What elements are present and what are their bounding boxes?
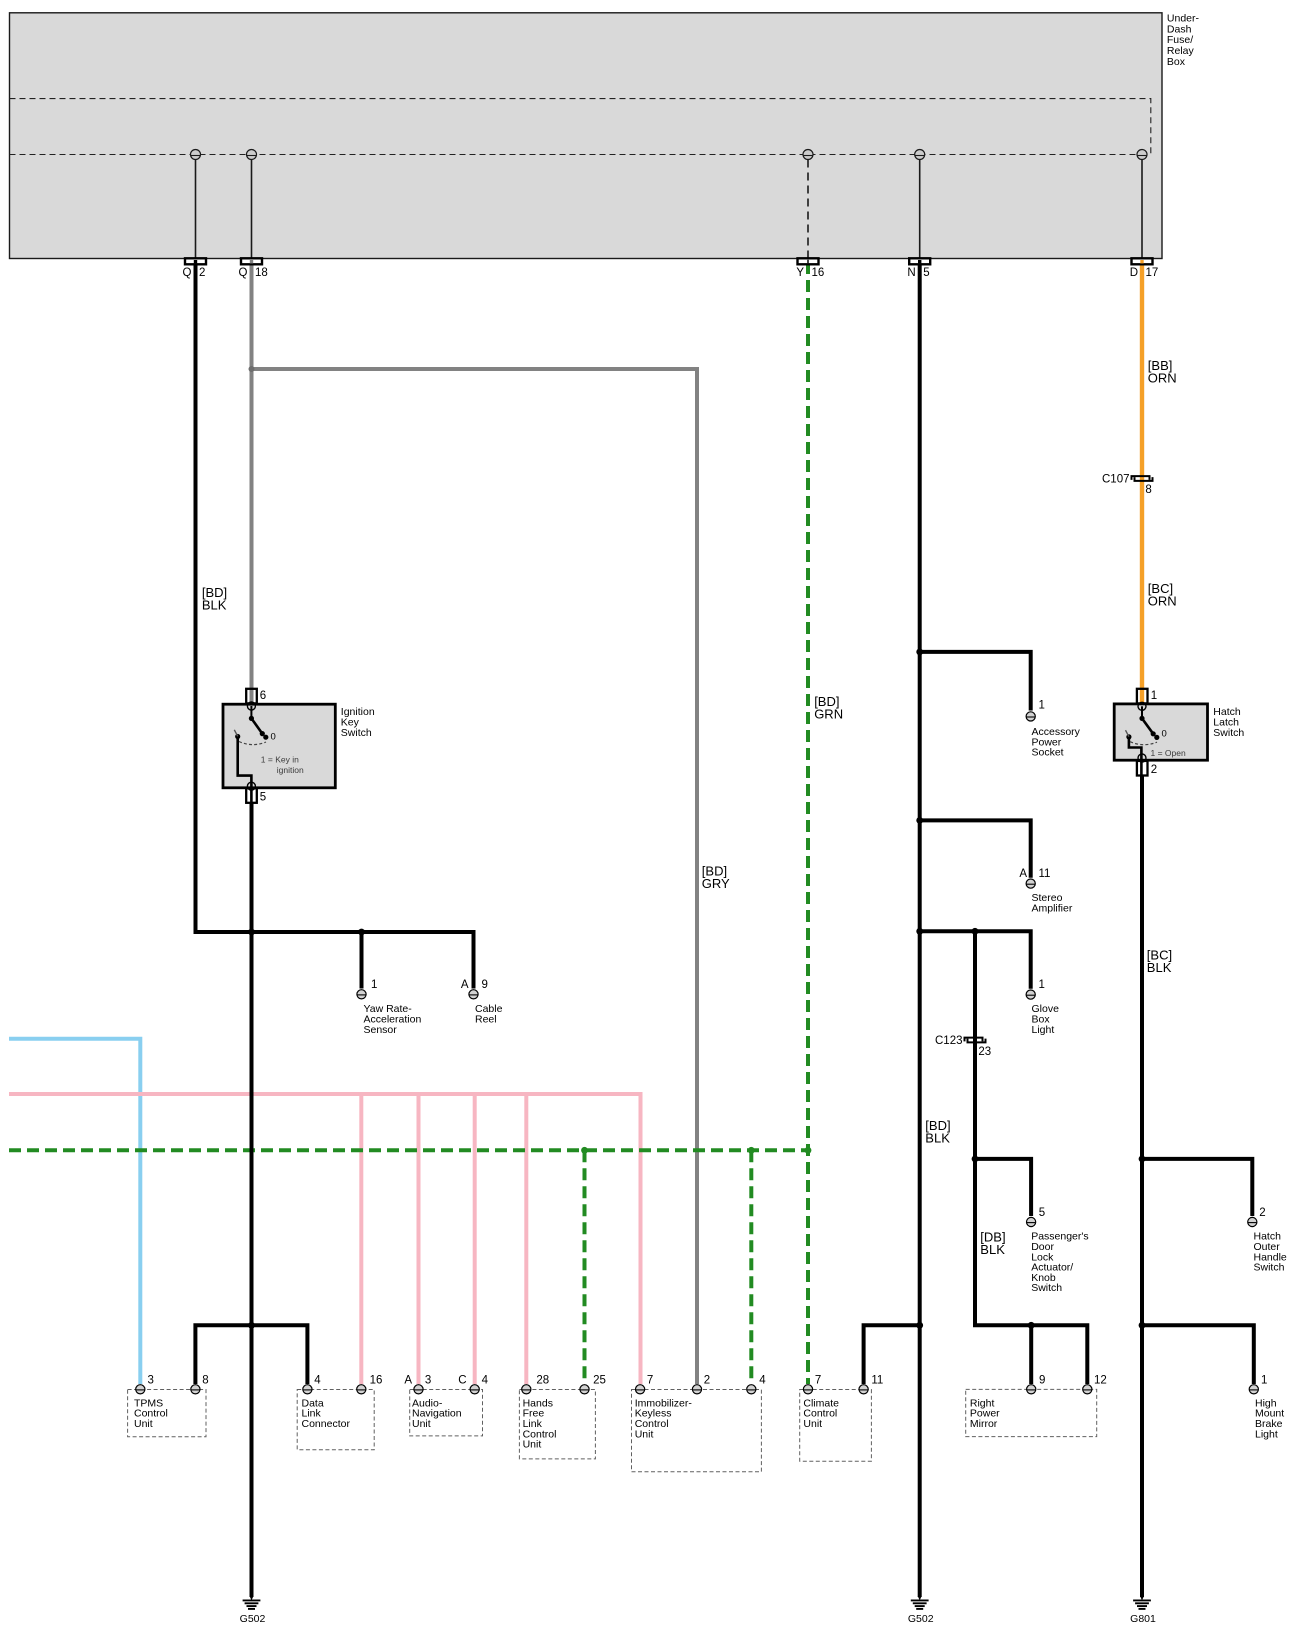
ignition switch movable arm	[251, 718, 262, 733]
svg-text:CableReel: CableReel	[475, 1003, 503, 1025]
wire PNK branch to DLC pin16	[359, 1094, 363, 1384]
wire stub in terminal Q18	[250, 260, 253, 263]
pin circle climate 7	[803, 1385, 812, 1394]
pin circle immobilizer 7	[636, 1385, 645, 1394]
pin circle audio-nav A3	[414, 1385, 423, 1394]
svg-text:18: 18	[255, 267, 268, 279]
component box climate control unit	[800, 1390, 872, 1462]
pin circle climate 11	[859, 1385, 868, 1394]
component box audio-navigation unit	[410, 1390, 483, 1436]
svg-text:16: 16	[812, 267, 825, 279]
wire branch to passenger door lock pin5	[975, 1159, 1031, 1216]
svg-text:N: N	[907, 267, 915, 279]
pin circle hands free 28	[522, 1385, 531, 1394]
junction at stereo branch	[916, 817, 923, 824]
svg-text:Under-DashFuse/RelayBox: Under-DashFuse/RelayBox	[1167, 13, 1200, 68]
svg-text:G801: G801	[1130, 1613, 1156, 1625]
svg-text:2: 2	[1151, 764, 1157, 776]
wire BLK branch to yaw rate sensor pin1	[360, 932, 364, 989]
pin circle audio-nav C4	[470, 1385, 479, 1394]
wire GRN branch to HandsFree pin25	[583, 1150, 587, 1384]
svg-text:6: 6	[260, 690, 266, 702]
svg-text:StereoAmplifier: StereoAmplifier	[1032, 892, 1073, 914]
component box TPMS control unit	[128, 1390, 206, 1437]
pin circle immobilizer 2	[692, 1385, 701, 1394]
hatch switch pivot dot	[1139, 716, 1144, 721]
wire stub in terminal D17	[1140, 260, 1143, 263]
svg-text:4: 4	[759, 1375, 766, 1387]
svg-text:8: 8	[1145, 484, 1151, 496]
ignition switch pivot dot	[249, 716, 254, 721]
internal bus dashed line lower	[10, 154, 1148, 156]
wire branch to stereo amplifier pin A11	[920, 820, 1031, 877]
junction GRN at Y16 vertical	[805, 1147, 812, 1154]
svg-text:1: 1	[1039, 979, 1045, 991]
pin circle glove box light 1	[1026, 990, 1035, 999]
svg-text:12: 12	[1094, 1375, 1107, 1387]
wire BLK [BD]: Q2 to yaw rate sensor and cable reel	[196, 262, 474, 989]
junction at yaw branch	[358, 929, 365, 936]
svg-text:28: 28	[536, 1375, 549, 1387]
node D17 bus terminal circle	[1137, 150, 1147, 160]
svg-text:Q: Q	[239, 267, 248, 279]
ignition switch travel arc dashed	[239, 742, 266, 745]
wire lead Q2 inside box	[195, 160, 197, 259]
wire PNK branch to Audio-Nav pin C4	[473, 1094, 477, 1384]
junction at climate pin11 branch	[916, 1322, 923, 1329]
hatch pin2 terminal	[1137, 761, 1148, 776]
svg-text:0: 0	[1162, 729, 1167, 740]
connector terminal Y16	[798, 258, 819, 264]
wire lead N5 inside box	[919, 160, 921, 259]
hatch switch contact 1 tick	[1126, 730, 1129, 737]
svg-text:2: 2	[1259, 1207, 1265, 1219]
Under-Dash Fuse/Relay Box body	[10, 13, 1163, 259]
svg-text:8: 8	[202, 1375, 208, 1387]
ignition switch pin6 entry circle	[247, 702, 255, 710]
ground G502 (left)	[243, 1596, 261, 1609]
wire PNK branch to Audio-Nav pin A3	[417, 1094, 421, 1384]
svg-text:7: 7	[815, 1375, 821, 1387]
svg-text:Y: Y	[796, 267, 804, 279]
pin circle DLC 16	[357, 1385, 366, 1394]
junction at hatch outer handle branch	[1139, 1156, 1146, 1163]
wire branch to accessory power socket pin1	[920, 652, 1031, 711]
svg-text:5: 5	[260, 792, 266, 804]
ignition switch contact 0 dot	[263, 735, 268, 740]
wire branch to climate control pin11	[864, 1325, 920, 1384]
pin circle yaw rate sensor 1	[357, 990, 366, 999]
inline connector C107	[1132, 476, 1153, 481]
svg-text:[BC]BLK: [BC]BLK	[1147, 948, 1172, 976]
junction GRN at HandsFree branch	[581, 1147, 588, 1154]
wire GRY branch [BD] GRY to immobilizer pin2	[252, 369, 698, 1384]
pin circle immobilizer 4	[747, 1385, 756, 1394]
svg-text:23: 23	[978, 1046, 991, 1058]
pin circle accessory power socket 1	[1026, 712, 1035, 721]
connector terminal Q2	[185, 258, 206, 264]
svg-text:9: 9	[482, 979, 488, 991]
hatch switch common stem	[1141, 706, 1143, 718]
node Q2 bus terminal circle	[191, 150, 201, 160]
svg-text:G502: G502	[240, 1613, 266, 1625]
wire PNK branch to HandsFree pin28	[524, 1094, 528, 1384]
hatch switch contact 0 dot	[1154, 735, 1159, 740]
svg-text:1: 1	[1261, 1375, 1267, 1387]
svg-text:HatchOuterHandleSwitch: HatchOuterHandleSwitch	[1254, 1231, 1287, 1274]
ignition switch pin5 exit circle	[247, 782, 255, 790]
svg-text:[BD]GRN: [BD]GRN	[814, 694, 843, 722]
wire BLK branch to TPMS pin8 and DLC pin4	[195, 1325, 307, 1384]
svg-text:D: D	[1130, 267, 1138, 279]
junction at TPMS/DLC ground branch	[248, 1322, 255, 1329]
ignition key switch body	[223, 704, 335, 788]
svg-text:Yaw Rate-AccelerationSensor: Yaw Rate-AccelerationSensor	[364, 1003, 422, 1036]
hatch switch pin2 exit circle	[1138, 754, 1146, 762]
svg-text:3: 3	[425, 1375, 431, 1387]
wire BLK: N5 to ground G502	[918, 262, 922, 1597]
svg-text:4: 4	[482, 1375, 489, 1387]
junction at passenger door branch	[972, 1156, 979, 1163]
junction GRN at immobilizer branch	[748, 1147, 755, 1154]
pin circle mirror 9	[1027, 1385, 1036, 1394]
junction GRY at Q18 branch	[249, 366, 255, 372]
svg-text:5: 5	[1039, 1207, 1045, 1219]
svg-text:Immobilizer-KeylessControlUnit: Immobilizer-KeylessControlUnit	[635, 1397, 693, 1440]
svg-text:7: 7	[647, 1375, 653, 1387]
svg-text:4: 4	[314, 1375, 321, 1387]
junction ignition ground wire at yaw horizontal	[248, 929, 255, 936]
junction at accessory branch	[916, 649, 923, 656]
junction at C123 wire tap	[972, 928, 979, 935]
svg-text:TPMSControlUnit: TPMSControlUnit	[134, 1397, 168, 1430]
wire BLU: TPMS pin3 feed	[9, 1039, 140, 1384]
svg-text:C107: C107	[1102, 474, 1130, 486]
svg-text:C123: C123	[935, 1035, 963, 1047]
svg-text:2: 2	[199, 267, 205, 279]
wire branch to high mount brake light pin1	[1142, 1325, 1254, 1384]
hatch latch switch body	[1114, 704, 1207, 760]
hatch switch pin1 entry circle	[1138, 702, 1146, 710]
internal bus dashed line upper	[10, 99, 1151, 155]
svg-text:1: 1	[371, 979, 377, 991]
ignition switch common stem	[250, 706, 252, 718]
svg-text:G502: G502	[908, 1613, 934, 1625]
svg-text:1 = Open: 1 = Open	[1151, 748, 1186, 758]
wire BLK [BC]: hatch latch switch pin2 to ground G801	[1140, 776, 1144, 1597]
pin circle high mount brake light 1	[1249, 1385, 1258, 1394]
svg-text:[BD]GRY: [BD]GRY	[702, 864, 730, 892]
svg-text:A: A	[404, 1375, 412, 1387]
wire GRN branch to immobilizer pin4	[749, 1150, 753, 1384]
pin circle passenger door lock 5	[1027, 1217, 1036, 1226]
connector terminal D17	[1132, 258, 1153, 264]
ignition switch contact 1 dot	[235, 734, 240, 739]
wire stub in terminal Q2	[194, 260, 197, 263]
node Y16 bus terminal circle	[803, 150, 813, 160]
svg-text:Q: Q	[183, 267, 192, 279]
node N5 bus terminal circle	[915, 150, 925, 160]
svg-text:[BD]BLK: [BD]BLK	[925, 1118, 950, 1146]
component box immobilizer-keyless control unit	[632, 1390, 762, 1472]
pin circle hands free 25	[580, 1385, 589, 1394]
hatch switch travel arc dashed	[1130, 742, 1157, 745]
svg-text:2: 2	[704, 1375, 710, 1387]
ground G801	[1133, 1596, 1151, 1609]
svg-text:9: 9	[1039, 1375, 1045, 1387]
hatch switch movable arm	[1142, 718, 1153, 733]
pin circle stereo amplifier A11	[1026, 879, 1035, 888]
wire GRN dashed: Y16 to climate control pin7	[806, 262, 810, 1384]
wire branch to glove box light pin1	[920, 931, 1031, 989]
svg-text:[DB]BLK: [DB]BLK	[980, 1229, 1005, 1257]
component box hands free link control unit	[519, 1390, 595, 1459]
svg-text:11: 11	[1039, 868, 1051, 880]
svg-text:1: 1	[1039, 700, 1045, 712]
ignition pin6 terminal	[246, 689, 257, 704]
ignition switch wire contact1 to pin5	[238, 737, 252, 805]
svg-text:17: 17	[1146, 267, 1159, 279]
junction at glove box branch	[916, 928, 923, 935]
hatch switch contact 1 dot	[1126, 734, 1131, 739]
svg-text:0: 0	[271, 732, 276, 743]
svg-text:C: C	[458, 1375, 466, 1387]
ground G502 (center)	[911, 1596, 929, 1609]
svg-text:[BD]BLK: [BD]BLK	[202, 585, 227, 613]
wire stub in terminal Y16	[807, 260, 809, 264]
pin circle hatch outer handle 2	[1248, 1217, 1257, 1226]
svg-text:3: 3	[148, 1375, 154, 1387]
connector terminal Q18	[241, 258, 262, 264]
component box right power mirror	[966, 1389, 1097, 1436]
pin circle mirror 12	[1083, 1385, 1092, 1394]
svg-text:DataLinkConnector: DataLinkConnector	[302, 1397, 351, 1430]
ignition pin5 terminal	[246, 788, 257, 803]
ignition switch contact 1 tick	[234, 730, 237, 737]
pin circle cable reel A9	[469, 990, 478, 999]
wire stub in terminal N5	[918, 260, 921, 263]
hatch switch wire contact1 to pin2	[1129, 737, 1142, 777]
svg-text:IgnitionKeySwitch: IgnitionKeySwitch	[341, 706, 375, 739]
svg-text:11: 11	[871, 1375, 883, 1387]
svg-text:25: 25	[593, 1375, 606, 1387]
svg-text:GloveBoxLight: GloveBoxLight	[1032, 1003, 1060, 1036]
connector terminal N5	[909, 258, 930, 264]
svg-text:[BB]ORN: [BB]ORN	[1148, 358, 1177, 386]
svg-text:RightPowerMirror: RightPowerMirror	[970, 1397, 1000, 1430]
wire [DB] BLK through C123 to passenger door lock and right power mirror	[975, 931, 1087, 1384]
node Q18 bus terminal circle	[247, 150, 257, 160]
svg-text:[BC]ORN: [BC]ORN	[1148, 581, 1177, 609]
inline connector C123	[965, 1038, 986, 1043]
svg-text:AccessoryPowerSocket: AccessoryPowerSocket	[1032, 726, 1081, 759]
pin circle TPMS 8	[191, 1385, 200, 1394]
svg-text:Audio-NavigationUnit: Audio-NavigationUnit	[412, 1397, 462, 1430]
svg-text:ClimateControlUnit: ClimateControlUnit	[803, 1397, 839, 1430]
wire BLK: ignition switch pin5 to ground G502	[250, 802, 254, 1597]
wire PNK: horizontal bus	[9, 1094, 641, 1384]
svg-text:HatchLatchSwitch: HatchLatchSwitch	[1213, 706, 1244, 739]
wire lead Y16 inside box (dashed)	[807, 160, 809, 259]
wire GRY: Q18 to ignition key switch pin6	[250, 262, 254, 705]
svg-text:A: A	[461, 979, 469, 991]
svg-text:5: 5	[923, 267, 929, 279]
pin circle TPMS 3	[136, 1385, 145, 1394]
svg-text:16: 16	[370, 1375, 383, 1387]
svg-text:HighMountBrakeLight: HighMountBrakeLight	[1255, 1397, 1284, 1440]
component box data link connector	[297, 1390, 374, 1450]
svg-text:HandsFreeLinkControlUnit: HandsFreeLinkControlUnit	[523, 1397, 557, 1450]
junction at mirror pin9 branch	[1028, 1322, 1035, 1329]
svg-text:A: A	[1019, 868, 1027, 880]
wire lead Q18 inside box	[251, 160, 253, 259]
ignition switch arm end dot	[260, 731, 265, 736]
wire GRN dashed horizontal bus	[9, 1148, 808, 1152]
hatch switch arm end dot	[1151, 731, 1156, 736]
wire lead D17 inside box	[1141, 160, 1143, 259]
svg-text:Passenger'sDoorLockActuator/Kn: Passenger'sDoorLockActuator/KnobSwitch	[1031, 1231, 1088, 1295]
hatch pin1 terminal	[1137, 689, 1148, 704]
junction at high mount brake light branch	[1139, 1322, 1146, 1329]
wire branch to right power mirror pin9	[1029, 1325, 1033, 1384]
wire ORN: D17 to hatch latch switch pin1	[1140, 262, 1144, 705]
svg-text:1: 1	[1151, 690, 1157, 702]
pin circle DLC 4	[303, 1385, 312, 1394]
wire branch to hatch outer handle switch pin2	[1142, 1159, 1252, 1216]
